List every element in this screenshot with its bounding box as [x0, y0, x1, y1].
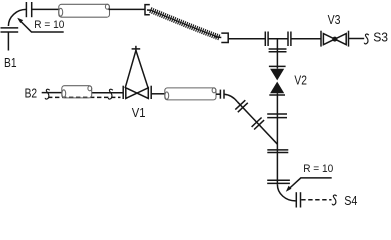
valve V1 (manual): [123, 46, 151, 99]
wire: [276, 93, 278, 184]
waveguide bend R=10 top-left: [8, 9, 26, 26]
leader arrow (bottom R=10): [286, 178, 332, 192]
valve V2 (closed): [269, 66, 286, 95]
wire: [216, 93, 220, 95]
wire vertical branch: [276, 39, 278, 69]
svg-text:B1: B1: [4, 57, 17, 70]
connector bracket (left end of flexible hose): [145, 5, 151, 15]
wire: [109, 8, 145, 10]
flange joint at B1: [1, 28, 19, 32]
diagonal wire: [237, 102, 277, 144]
svg-text:R = 10: R = 10: [303, 163, 333, 175]
svg-text:V2: V2: [294, 74, 307, 87]
flange joint (diagonal, lower): [252, 118, 265, 130]
wire to S3: [349, 38, 365, 40]
wire: [32, 8, 59, 10]
wire B2 inner conductor (dashed): [48, 96, 121, 98]
valve V3: [321, 31, 349, 47]
flange joint: [267, 150, 288, 153]
flange joint (main run, right): [288, 32, 291, 47]
svg-text:R = 10: R = 10: [34, 19, 64, 31]
svg-text:B2: B2: [25, 88, 38, 101]
waveguide bend R=10 bottom: [277, 185, 295, 201]
svg-text:V1: V1: [132, 105, 146, 120]
wire B2 outer (solid): [42, 92, 123, 94]
dashed wire to S4: [301, 199, 331, 201]
wire B1 vertical: [7, 32, 9, 50]
bend into diagonal: [224, 94, 237, 102]
leader arrow (top R=10): [17, 18, 64, 32]
rigid line section (tube 1): [59, 4, 110, 17]
flexible hose (corrugated): [150, 7, 220, 40]
flange joint (main run, left): [265, 32, 268, 47]
flange joint: [267, 180, 290, 183]
rigid line section (tube 3, small): [62, 86, 92, 98]
svg-text:S3: S3: [373, 30, 388, 44]
wire: [151, 93, 165, 95]
break squiggle B2 left: [45, 89, 49, 99]
break squiggle S4: [332, 195, 336, 205]
svg-text:S4: S4: [344, 193, 358, 208]
break squiggle S3: [364, 34, 368, 44]
connector bracket (right end of flexible hose): [215, 33, 228, 42]
svg-text:V3: V3: [328, 13, 341, 27]
flange joint (to S4): [296, 192, 300, 207]
flange joint (diagonal, upper): [235, 100, 248, 112]
break squiggle B2 right: [108, 89, 112, 99]
rigid line section (tube 2): [165, 88, 216, 100]
flange joint: [267, 114, 287, 118]
wire main run: [228, 38, 265, 40]
flange joint (top line): [26, 2, 31, 17]
flange joint (after tube 2): [220, 90, 224, 99]
flange joint (below tee): [269, 49, 287, 52]
